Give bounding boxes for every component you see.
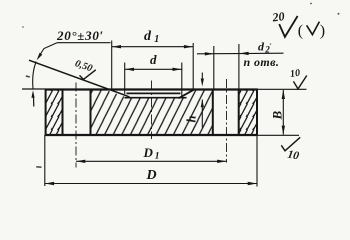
top surface extension line to left (for angle dim) [22, 88, 45, 90]
general note: small check in parentheses [307, 22, 320, 35]
svg-text:20: 20 [271, 9, 286, 24]
dim B: dimension line [282, 90, 284, 135]
dim d: dimension line [125, 68, 182, 70]
dim d2: right extension line [238, 44, 240, 89]
svg-text:d: d [150, 52, 157, 67]
dim d: left arrowhead [125, 68, 134, 71]
dim d2: left arrowhead (outside, pointing right) [205, 52, 214, 55]
dim h: lower arrowhead (pointing up) [201, 99, 204, 107]
right bolt hole, right edge [238, 89, 240, 135]
svg-text:10: 10 [289, 68, 300, 80]
speck: dot below d2 label [270, 43, 272, 45]
right bolt hole, left edge [212, 89, 214, 135]
general note: big check mark [279, 16, 297, 37]
speck: dot right of note [338, 13, 340, 15]
dim d: left extension line [124, 63, 126, 95]
recess bottom lower line [125, 97, 187, 99]
dim D: right arrowhead [248, 182, 257, 185]
right bolt hole centerline [226, 79, 228, 163]
svg-text:п отв.: п отв. [244, 55, 280, 69]
left bolt hole, left edge [62, 89, 64, 135]
dim D1: left arrowhead [76, 160, 85, 163]
svg-text:2: 2 [264, 45, 270, 55]
dim d1: right arrowhead [184, 45, 193, 48]
svg-text:1: 1 [155, 152, 160, 162]
bottom edge extension to right (for B dim) [258, 134, 300, 136]
part center axis [151, 81, 153, 140]
svg-text:h: h [185, 116, 199, 123]
svg-text:D: D [146, 168, 157, 183]
angle dim: leader arrowhead at cone line [37, 53, 43, 61]
roughness 0,50: check mark [80, 70, 96, 80]
roughness 10 top: check mark [293, 76, 306, 89]
speck: dot near top note [310, 3, 312, 5]
dim D: left arrowhead [45, 182, 54, 185]
dim d: right extension line [181, 63, 183, 99]
svg-text:10: 10 [286, 149, 300, 163]
speck: dash left of D extension [36, 166, 41, 168]
svg-text:20°±30′: 20°±30′ [56, 28, 104, 43]
dim d1: left extension line [111, 41, 113, 90]
svg-text:B: B [270, 111, 285, 121]
svg-text:1: 1 [154, 34, 159, 45]
recess bottom upper line [127, 92, 181, 94]
dim B: top arrowhead [282, 90, 285, 99]
dim d1: right extension line [192, 43, 194, 89]
hatched section: right outer block [240, 90, 257, 135]
angle dim: lower arrowhead below extension line (pointing up) [31, 90, 34, 98]
dim h: upper arrowhead (pointing down) [201, 79, 204, 87]
recess right cone wall [179, 89, 195, 98]
dim D1: right arrowhead [217, 160, 226, 163]
svg-text:d: d [144, 29, 152, 44]
angle dim: leader from label [38, 43, 57, 58]
20deg cone line (chamfer construction line) [29, 60, 130, 97]
body right edge [256, 89, 258, 136]
left bolt hole centerline [75, 83, 77, 168]
dim D: right extension line [256, 135, 258, 187]
dim h: lower arrow line [201, 100, 203, 128]
hatched section: left outer block [46, 90, 62, 135]
svg-text:d: d [258, 40, 265, 54]
dim D: dimension line [45, 183, 257, 185]
svg-text:D: D [143, 145, 154, 160]
dim B: bottom arrowhead [282, 126, 285, 135]
dim d2: right arrowhead (outside, pointing left) [240, 52, 249, 55]
dim d2: left extension line [213, 46, 215, 89]
svg-text:0,50: 0,50 [74, 58, 94, 74]
dim D1: dimension line [76, 160, 227, 162]
angle dim: lower arrow tail [33, 97, 35, 107]
speck: dot top left [22, 26, 24, 28]
top surface extension line to right (for B dim / roughness) [258, 88, 307, 90]
dim d2: dimension line with label tail [197, 52, 284, 55]
hatched section: central block (under recess) [91, 90, 212, 134]
angle dim: arc [33, 62, 37, 89]
roughness 10 bottom: check mark [281, 137, 300, 151]
body bottom edge (thick) [45, 134, 258, 136]
dim d: right arrowhead [173, 68, 182, 71]
dim d1: dimension line [112, 46, 194, 48]
angle dim: label underline [57, 42, 111, 44]
speck: dash at far left near arc [26, 76, 30, 77]
body left edge [45, 89, 47, 136]
svg-text:): ) [320, 23, 325, 40]
dim d1: left arrowhead [112, 45, 121, 48]
svg-text:(: ( [298, 23, 303, 40]
left bolt hole, right edge [90, 89, 92, 135]
body top surface (thick) [45, 88, 258, 90]
dim h: upper arrow line [201, 73, 203, 81]
dim D: left extension line [44, 135, 46, 186]
